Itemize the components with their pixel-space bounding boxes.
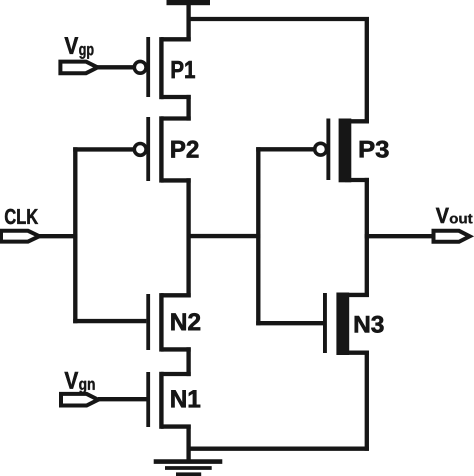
wire N3 source to bottom rail [365, 351, 369, 451]
label P3 [360, 141, 389, 158]
wire Vgn lead [98, 397, 148, 401]
transistor N2 [146, 293, 190, 352]
wire right gate rail [256, 147, 260, 325]
transistor N1 [146, 372, 190, 429]
label P1 [172, 61, 195, 78]
transistor N3 [323, 293, 369, 356]
wire VDD stem to P1 source [186, 0, 190, 41]
port Vgn [61, 394, 98, 406]
label Vgn [65, 372, 79, 388]
port Vgp [60, 62, 97, 74]
wire node to right gate rail [187, 234, 261, 238]
wire bottom rail to N3 source [187, 447, 369, 451]
label Vout [436, 208, 449, 223]
transistor P2 [134, 116, 190, 182]
wire N2 gate lead [73, 319, 146, 323]
wire Vgp lead [97, 65, 135, 69]
ground [154, 462, 223, 476]
wire N2 source to N1 drain [186, 347, 190, 376]
wire CLK to rail [39, 234, 77, 238]
wire P3 gate lead [256, 147, 314, 151]
wire Vout node to port [365, 234, 434, 238]
wire N3 gate lead [256, 321, 324, 325]
label N2 [171, 313, 200, 330]
wire P3 drain through Vout node to N3 drain [365, 178, 369, 297]
VDD supply bar [167, 0, 211, 5]
label P2 [171, 141, 198, 158]
transistor P3 [315, 119, 369, 183]
port CLK [1, 231, 39, 242]
label Vgp [65, 37, 79, 53]
wire VDD branch to P3 source [189, 19, 367, 123]
port Vout [434, 231, 470, 242]
wire N1 source to ground [186, 425, 190, 462]
label CLK [5, 209, 38, 224]
transistor P1 [134, 37, 190, 99]
wire P2 drain through node to N2 drain [186, 178, 190, 297]
wire P2 gate lead [73, 147, 134, 151]
wire P1 drain to P2 source [186, 95, 190, 121]
label N1 [171, 390, 200, 407]
wire CLK gate rail [73, 147, 77, 323]
label N3 [355, 316, 384, 333]
